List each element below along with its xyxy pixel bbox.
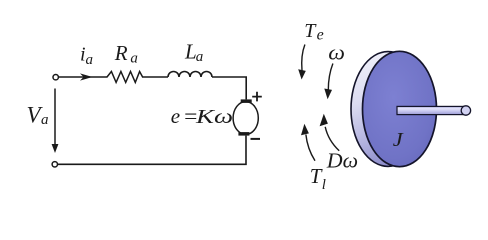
svg-text:ω: ω: [328, 41, 345, 64]
svg-text:a: a: [130, 51, 138, 67]
svg-text:Dω: Dω: [326, 149, 358, 173]
svg-text:T: T: [304, 20, 317, 42]
svg-text:a: a: [196, 49, 204, 65]
svg-text:l: l: [322, 177, 326, 193]
svg-text:Kω: Kω: [195, 106, 233, 128]
svg-text:R: R: [114, 41, 128, 65]
svg-text:a: a: [86, 52, 94, 68]
svg-text:J: J: [393, 128, 405, 151]
svg-text:e: e: [317, 26, 324, 43]
svg-text:e: e: [171, 104, 180, 128]
svg-text:L: L: [184, 40, 197, 64]
svg-text:a: a: [41, 112, 49, 128]
